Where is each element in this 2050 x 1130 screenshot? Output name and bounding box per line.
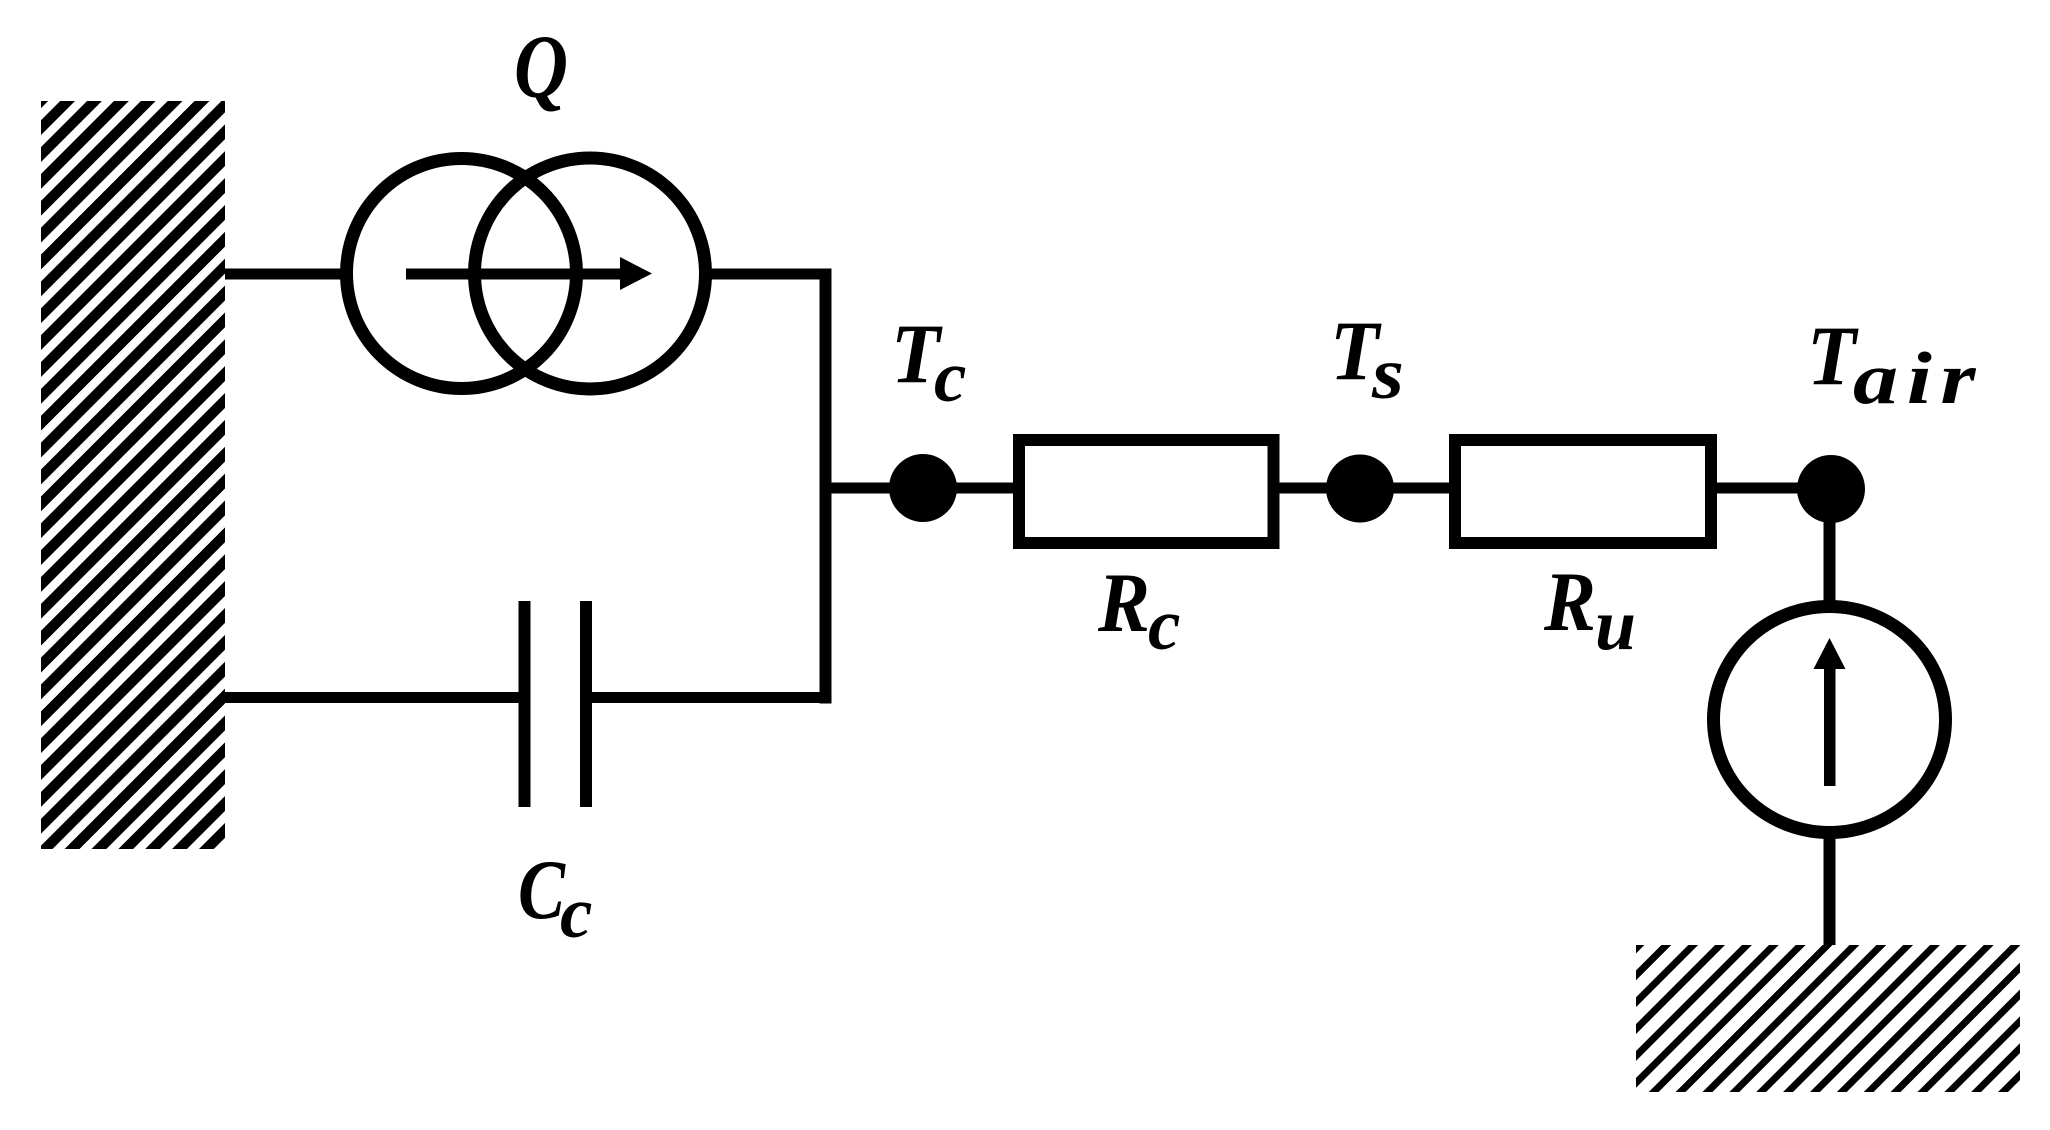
label Cc [518,843,592,953]
svg-text:c: c [560,872,592,953]
svg-text:R: R [1097,556,1150,650]
ground wall left (hatched) [41,101,225,849]
node Tc dot [889,454,957,522]
capacitor Cc right plate [580,601,592,807]
heat source Q arrow [406,257,652,290]
label Ru [1543,555,1636,665]
wire from ambient source to ground [1824,830,1836,950]
svg-text:u: u [1595,584,1636,665]
ambient temperature source circle [1714,607,1946,833]
wire top-left from wall to source Q [225,269,346,280]
heat source Q circle 1 [347,159,577,389]
wire from source Q to top-right corner [706,269,832,280]
svg-text:c: c [1148,584,1180,665]
wire bottom from wall to capacitor [225,692,519,703]
heat source Q circle 2 [475,158,706,389]
node Ts dot [1326,455,1394,523]
wire from capacitor to vertical [592,692,832,703]
ambient source arrow up [1814,638,1846,786]
label Rc [1097,556,1180,665]
label Tc [891,307,966,417]
svg-text:T: T [1807,309,1859,403]
svg-text:R: R [1543,555,1596,649]
wire middle horizontal Tc-Rc-Ts-Ru-Tair [826,483,1832,494]
node Tair dot [1797,455,1865,523]
label Ts [1330,304,1404,414]
label Tair [1807,309,1984,420]
svg-text:air: air [1853,338,1984,420]
ground wall bottom-right (hatched) [1636,945,2020,1092]
svg-text:c: c [934,336,966,417]
svg-text:Q: Q [514,18,568,117]
svg-text:C: C [518,843,566,937]
svg-text:s: s [1371,333,1404,414]
resistor Rc [1019,440,1274,543]
capacitor Cc left plate [519,601,531,807]
wire from Tair down to ambient source [1824,489,1836,609]
wire vertical right of Q loop [820,273,832,704]
resistor Ru [1455,440,1711,543]
